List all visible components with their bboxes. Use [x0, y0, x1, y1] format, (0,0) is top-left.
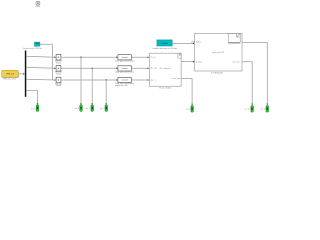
svg-text:swap_word_DRV: swap_word_DRV: [212, 52, 225, 54]
wire C1 to S3 input: [40, 44, 53, 80]
svg-text:Gain3: Gain3: [56, 85, 61, 87]
constant C2 (teal wide block): [152, 40, 177, 50]
dog-ear icon on subsystem: [178, 53, 181, 58]
terminator T6 (green): [261, 106, 269, 113]
wire bus to S2: [26, 66, 54, 69]
wire S1 to Convert1: [61, 56, 117, 58]
svg-text:1.5080e: 1.5080e: [161, 43, 168, 45]
wire S3 to Convert3: [61, 79, 117, 81]
wire subsystem out1 to chart port2: [181, 61, 193, 63]
svg-text:out_c: out_c: [186, 108, 190, 111]
svg-text:out_tx: out_tx: [261, 108, 266, 111]
svg-text:u16_checksum: u16_checksum: [160, 68, 171, 70]
wire S2 to Convert2: [61, 67, 117, 69]
svg-text:out_b: out_b: [31, 107, 35, 110]
wire bus to S3: [26, 78, 54, 81]
terminator T1 (green): [75, 105, 83, 112]
junction J3: [106, 79, 107, 80]
wire bus to S1: [26, 55, 54, 58]
wire subsystem control_data to terminator T4: [181, 79, 192, 105]
svg-text:TWE_US: TWE_US: [6, 74, 15, 76]
svg-text:TWE US out bus: TWE US out bus: [3, 77, 16, 80]
svg-text:PLC_T: PLC_T: [151, 80, 156, 82]
svg-text:out_crc: out_crc: [245, 108, 251, 111]
svg-text:out_D: out_D: [86, 107, 91, 110]
wire chart out2 to terminator T5: [242, 62, 252, 105]
chart U3 (swap word): [191, 33, 242, 74]
terminator T2 (green): [86, 105, 94, 112]
svg-text:Convert: Convert: [121, 56, 128, 59]
drop wire to T2: [91, 68, 93, 104]
wire bus bottom to terminator T0: [26, 91, 37, 105]
svg-text:out_T: out_T: [100, 107, 104, 110]
terminator T4 (green): [186, 106, 193, 113]
data type conversion Convert2: [115, 66, 134, 74]
svg-text:wr_serial: wr_serial: [195, 61, 202, 63]
svg-text:Gain2: Gain2: [56, 73, 61, 75]
svg-text:Data Type Conversion1: Data Type Conversion1: [115, 59, 134, 62]
wire Convert3 to subsystem: [131, 79, 148, 81]
constant C1 (teal small block): [22, 42, 42, 50]
label under icon: [229, 42, 240, 43]
svg-text:SC bus / Builder: SC bus / Builder: [159, 87, 172, 90]
svg-text:PLC_SD: PLC_SD: [151, 68, 158, 70]
data type conversion Convert3: [115, 77, 134, 87]
terminator T5 (green): [245, 106, 254, 113]
wire chart out1 to terminator T6: [242, 43, 267, 105]
drop wire to T3: [105, 80, 107, 104]
dog-ear icon on chart: [228, 34, 240, 43]
svg-text:Convert: Convert: [121, 67, 128, 70]
bus bar (mux): [25, 51, 27, 97]
selector S1: [55, 54, 62, 64]
svg-text:uint16 out (u16): uint16 out (u16): [115, 84, 128, 87]
wire C2 to chart port1: [172, 42, 193, 44]
svg-text:3 PC/83 Builder: 3 PC/83 Builder: [211, 72, 223, 75]
wire Convert2 to subsystem: [131, 67, 148, 69]
svg-text:Data Type Conversion2: Data Type Conversion2: [115, 71, 134, 74]
annotation icon U1 (model info): [36, 1, 41, 6]
drop wire to T1: [80, 57, 82, 104]
junction J1: [80, 57, 81, 58]
svg-text:Gain1: Gain1: [56, 62, 61, 64]
selector S2: [55, 66, 62, 76]
subsystem U2 (SC builder): [150, 53, 182, 89]
data type conversion Convert1: [115, 55, 134, 63]
yellow source block: [2, 70, 19, 80]
svg-text:PLC_S: PLC_S: [151, 57, 156, 59]
selector S3: [55, 77, 62, 87]
svg-text:Convert: Convert: [121, 79, 128, 82]
svg-text:Compute data rate for OH data: Compute data rate for OH data: [152, 47, 177, 50]
wire Convert1 to subsystem: [131, 56, 148, 58]
junction J2: [92, 68, 93, 69]
terminator T0 (green): [31, 105, 39, 112]
wire yellow to bus: [18, 73, 24, 75]
terminator T3 (green): [100, 105, 108, 112]
